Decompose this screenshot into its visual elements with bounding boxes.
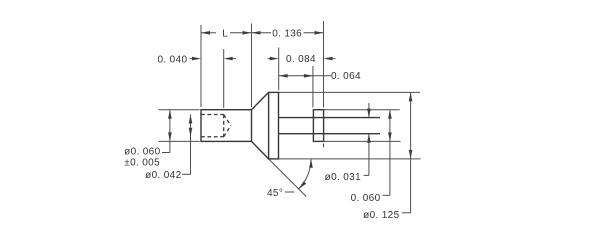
svg-text:±0. 005: ±0. 005 xyxy=(124,157,160,168)
svg-text:0. 064: 0. 064 xyxy=(331,71,361,82)
svg-text:ø0. 125: ø0. 125 xyxy=(363,210,399,221)
svg-text:0. 040: 0. 040 xyxy=(158,55,188,66)
svg-text:ø0. 060: ø0. 060 xyxy=(124,147,160,158)
svg-text:45°: 45° xyxy=(267,188,283,199)
svg-text:ø0. 042: ø0. 042 xyxy=(145,170,181,181)
svg-text:0. 136: 0. 136 xyxy=(272,29,302,40)
svg-text:ø0. 031: ø0. 031 xyxy=(325,172,361,183)
svg-text:0. 084: 0. 084 xyxy=(286,54,316,65)
svg-text:L: L xyxy=(222,29,228,40)
svg-text:0. 060: 0. 060 xyxy=(351,193,381,204)
